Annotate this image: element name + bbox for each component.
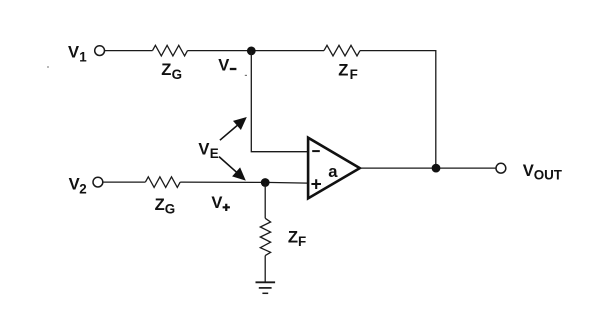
svg-text:F: F: [350, 67, 358, 82]
wire ZF to output node (feedback, with corner): [360, 51, 436, 169]
terminal V1: [95, 46, 105, 56]
svg-text:V: V: [69, 175, 80, 194]
svg-text:Z: Z: [338, 60, 348, 79]
label ZF (top): [338, 60, 358, 82]
label V+: [211, 193, 230, 212]
arrow VE to non-inverting wire: [219, 157, 246, 181]
wire ZG to node Vminus: [188, 50, 325, 52]
arrow VE to inverting wire: [220, 117, 247, 140]
terminal V2: [93, 177, 103, 187]
wire V1 terminal to ZG: [105, 50, 153, 52]
op-amp U1: [308, 138, 360, 199]
svg-text:V: V: [218, 56, 229, 75]
wire V2 terminal to ZG: [103, 181, 145, 183]
svg-text:V: V: [523, 161, 534, 180]
svg-text:Z: Z: [155, 195, 165, 214]
label V-: [218, 56, 236, 75]
label ZF (bottom): [288, 227, 306, 249]
wire ZG to node V+: [180, 182, 308, 183]
svg-text:F: F: [298, 234, 306, 249]
ground: [256, 282, 276, 293]
wire ZF to ground: [264, 256, 266, 283]
label VOUT: [523, 161, 563, 183]
svg-text:V: V: [198, 139, 209, 158]
svg-text:E: E: [210, 146, 219, 161]
terminal VOUT: [496, 163, 506, 173]
node output junction dot: [432, 164, 441, 173]
svg-text:Z: Z: [288, 227, 298, 246]
wire V+ node down to ZF: [264, 183, 266, 219]
svg-text:V: V: [68, 43, 79, 62]
svg-text:V: V: [211, 193, 222, 212]
svg-text:G: G: [172, 67, 182, 82]
node V+ junction dot: [261, 178, 270, 187]
scan speck 2: [245, 75, 247, 76]
label V1: [68, 43, 87, 65]
svg-text:OUT: OUT: [534, 168, 563, 183]
svg-text:Z: Z: [161, 60, 171, 79]
svg-text:1: 1: [79, 50, 87, 65]
wire V- node down and to op-amp inverting input: [251, 51, 307, 152]
resistor ZF (top): [324, 45, 360, 56]
resistor ZG (bottom): [145, 177, 180, 188]
label VE: [198, 139, 218, 161]
wire op-amp output to terminal: [360, 167, 496, 169]
resistor ZG (top): [153, 45, 188, 56]
svg-text:2: 2: [79, 182, 86, 197]
node V- junction dot: [247, 47, 256, 56]
svg-text:a: a: [328, 162, 338, 181]
label ZG (bottom): [155, 195, 176, 217]
scan speck 1: [47, 66, 49, 68]
resistor ZF (bottom, vertical): [260, 218, 270, 255]
svg-text:G: G: [165, 202, 175, 217]
label V2: [69, 175, 87, 197]
label ZG (top): [161, 60, 182, 82]
